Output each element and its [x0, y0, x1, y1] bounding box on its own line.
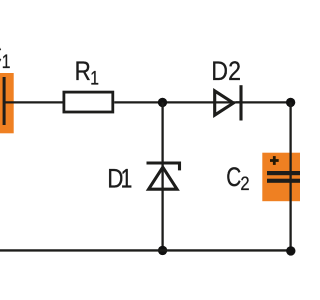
svg-text:2: 2 — [240, 173, 249, 195]
label R1 — [75, 57, 91, 86]
wire D2 cathode to node B — [236, 101, 291, 103]
label D2 — [211, 57, 241, 87]
zener diode D1 cathode bar with bend — [147, 163, 180, 170]
wire R1 to D2 through node A — [114, 101, 214, 103]
label R1 subscript 1 — [90, 67, 99, 89]
capacitor C2 lower plate — [267, 179, 301, 183]
junction bottom right node — [286, 246, 295, 255]
svg-text:R: R — [75, 57, 91, 86]
svg-text:1: 1 — [121, 164, 133, 194]
wire C1 to R1 — [4, 101, 64, 103]
label C1 subscript 1 — [2, 51, 11, 73]
label C1 — [0, 41, 2, 71]
wire through D2 triangle — [214, 101, 241, 103]
resistor R1 — [64, 92, 113, 112]
svg-text:1: 1 — [90, 67, 99, 89]
bottom rail wire — [0, 249, 291, 251]
zener diode D1 triangle — [149, 167, 177, 189]
junction ground node under D1 — [158, 246, 167, 255]
diode D2 triangle — [215, 91, 234, 115]
capacitor C2 highlight box (cut off at right edge) — [262, 153, 301, 202]
plus sign of C2 — [270, 156, 279, 165]
capacitor C1 (electrolytic, highlighted, cut off at left edge) — [0, 73, 14, 133]
junction node B — [286, 98, 295, 107]
wire node B down through C2 to bottom rail — [289, 102, 291, 250]
svg-text:C: C — [226, 163, 241, 193]
label D1 — [107, 165, 123, 194]
label D1 digit — [121, 164, 133, 194]
svg-text:1: 1 — [2, 51, 11, 73]
capacitor C2 upper plate — [267, 171, 301, 175]
junction node A — [158, 98, 167, 107]
svg-text:D2: D2 — [211, 57, 241, 87]
label C2 subscript 2 — [240, 173, 249, 195]
label C2 — [226, 163, 241, 193]
diode D2 cathode bar — [239, 85, 242, 120]
wire node A down to D1 and bottom rail — [161, 102, 163, 250]
